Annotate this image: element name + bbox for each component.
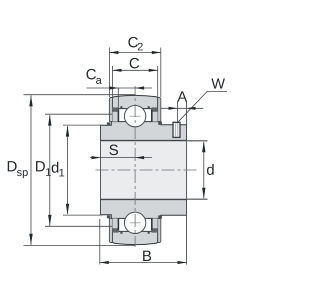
B: [100, 262, 187, 264]
seal body right top: [152, 111, 157, 122]
seal foot right bottom: [158, 215, 162, 218]
D_sp: [30, 95, 32, 245]
d: [202, 141, 205, 152]
seal band left top: [109, 98, 112, 122]
label d1-sub: [59, 169, 64, 177]
label D1-sub: [46, 168, 51, 176]
S : outside arrows: [92, 156, 101, 159]
label Ca-sub: [96, 78, 102, 84]
D1: [49, 115, 51, 227]
seal foot left top: [107, 122, 110, 125]
screw top (W): [173, 122, 180, 137]
arrowheads: [29, 51, 205, 264]
seal foot left bottom: [107, 215, 110, 218]
seal band right bottom: [158, 219, 161, 243]
inner ring + extension + collar, top section: [101, 122, 187, 141]
bore band (shaft seen through bore): [101, 141, 187, 199]
label B: [143, 251, 151, 261]
label A: [177, 91, 187, 101]
C2: [109, 52, 160, 54]
seal body left top: [113, 111, 118, 122]
seal bar + lip right top: [152, 107, 158, 111]
seal band right top: [158, 98, 161, 122]
seal bar + lip left top: [113, 107, 119, 111]
centerline horizontal: [96, 169, 198, 171]
W leader: [177, 92, 227, 124]
C: [113, 69, 158, 71]
outer ring top (dome): [113, 95, 158, 108]
A: [161, 107, 203, 109]
label C: [130, 58, 139, 69]
d: [203, 142, 205, 198]
B: [100, 261, 109, 264]
centerline vertical: [134, 86, 136, 247]
label Dsp-D: [8, 161, 17, 171]
cage ticks top: [120, 106, 122, 108]
d1: [66, 126, 69, 137]
label d1-d: [52, 162, 59, 173]
label Dsp-sub: [17, 170, 28, 178]
D1: [48, 115, 51, 126]
label S: [109, 145, 118, 156]
label d: [207, 164, 214, 175]
ball top: [124, 106, 145, 127]
outer ring bottom (dome): [113, 231, 158, 244]
C2: [109, 51, 118, 54]
bore lines: [101, 140, 208, 142]
label C2-sub: [138, 43, 143, 51]
label C2-C: [128, 37, 137, 48]
seal foot right top: [158, 122, 162, 125]
ball bottom: [124, 212, 145, 233]
seal band left bottom: [109, 219, 112, 243]
Ca: [87, 87, 153, 89]
inner ring left face line: [100, 125, 102, 215]
seal bar + lip right bottom: [152, 228, 158, 232]
label Ca-C: [86, 69, 95, 80]
Ca : outside arrows pointing inward: [109, 86, 118, 89]
A : outside arrows: [169, 107, 178, 110]
d1: [67, 126, 69, 214]
seal body left bottom: [113, 218, 118, 229]
label W: [211, 79, 225, 89]
seal bar + lip left bottom: [113, 228, 119, 232]
C: [113, 69, 122, 72]
label D1-D: [36, 161, 45, 171]
inner ring + extension + collar, bottom section: [101, 200, 187, 219]
S: [90, 157, 152, 159]
cage ticks bottom: [120, 232, 122, 234]
seal body right bottom: [152, 218, 157, 229]
D_sp: [29, 95, 32, 106]
collar right face / B ext line: [186, 102, 188, 265]
